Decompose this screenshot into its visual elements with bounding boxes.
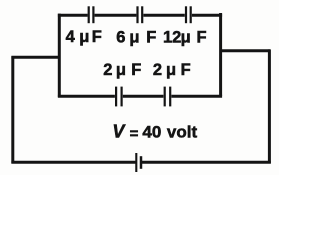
capacitor C4 2uF: left plate xyxy=(115,87,117,107)
capacitor C4 2uF: right plate xyxy=(120,87,122,107)
wire: inner box top edge segment 4 xyxy=(192,14,222,17)
svg-text:V=40volt: V=40volt xyxy=(112,121,197,142)
wire: inner box bottom edge segment 1 xyxy=(58,95,115,98)
capacitor C2 6uF: left plate xyxy=(136,6,138,23)
wire: inner box right edge xyxy=(219,13,222,96)
capacitor C3 12uF: left plate xyxy=(185,6,187,23)
svg-text:6μF: 6μF xyxy=(116,28,156,46)
capacitor C1 4uF: left plate xyxy=(88,6,90,23)
wire: bottom right segment xyxy=(142,161,271,164)
battery V: left plate xyxy=(135,153,137,172)
wire: inner box top edge segment 1 xyxy=(58,14,88,17)
wire: outer left vertical xyxy=(11,56,14,163)
capacitor C5 2uF: left plate xyxy=(164,87,166,107)
wire: bottom left segment xyxy=(11,161,135,164)
battery V: right plate xyxy=(140,156,143,169)
wire: inner box bottom edge segment 2 xyxy=(123,95,164,98)
wire: outer left connector to inner box xyxy=(11,56,60,59)
svg-text:12μF: 12μF xyxy=(163,28,207,46)
wire: inner box top edge segment 3 xyxy=(143,14,184,17)
wire: outer right vertical xyxy=(268,49,271,163)
capacitor C3 12uF: right plate xyxy=(190,6,192,23)
svg-text:2μF: 2μF xyxy=(103,61,141,79)
capacitor C2 6uF: right plate xyxy=(141,6,143,23)
wire: inner box top edge segment 2 xyxy=(95,14,137,17)
svg-text:2μF: 2μF xyxy=(153,61,191,79)
wire: inner box bottom edge segment 3 xyxy=(171,95,222,98)
capacitor C5 2uF: right plate xyxy=(169,87,171,107)
svg-text:4μF: 4μF xyxy=(66,28,102,46)
capacitor C1 4uF: right plate xyxy=(92,6,94,23)
wire: outer right connector from inner box xyxy=(220,49,271,52)
wire: inner box left edge xyxy=(58,14,61,98)
